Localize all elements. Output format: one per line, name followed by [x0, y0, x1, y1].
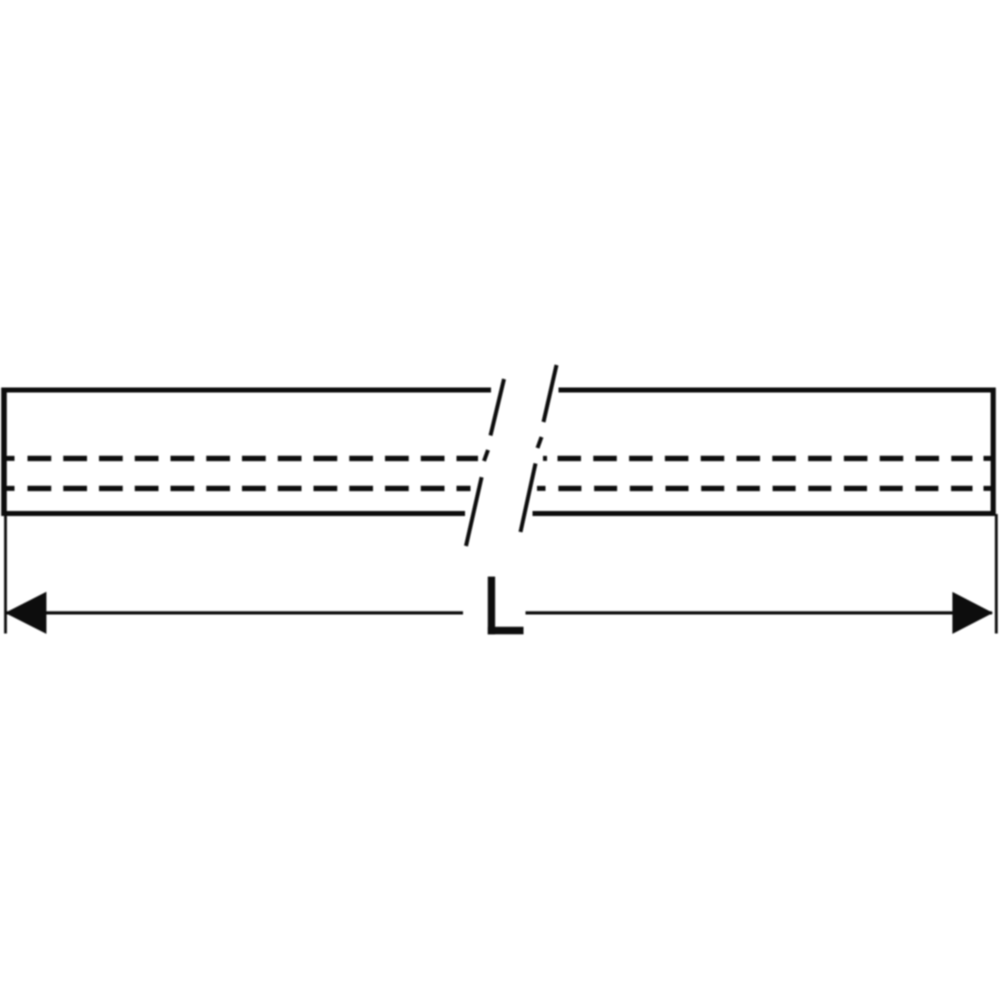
rod bottom edge right segment — [533, 511, 996, 516]
break line right, middle tick — [538, 437, 542, 448]
thread dashed line row1 right stub — [984, 456, 992, 461]
thread dashed line row1 middle dot — [543, 456, 547, 461]
rod top edge right segment — [559, 388, 996, 393]
dimension line left part — [6, 611, 463, 614]
break line left, upper segment — [491, 379, 505, 436]
rod right end edge — [991, 388, 996, 516]
thread dashed line row2 right dashes — [558, 486, 972, 491]
label L (vertical stem) — [488, 577, 495, 635]
rod bottom edge left segment — [2, 511, 466, 516]
break line left, middle tick — [484, 450, 488, 461]
dimension line right part — [526, 611, 993, 614]
label L (horizontal bar) — [488, 627, 524, 635]
break line right, upper segment — [544, 365, 557, 422]
break line left, lower segment — [466, 477, 482, 546]
thread dashed line row2 left stub — [2, 486, 15, 491]
thread dashed line row1 right dashes — [558, 456, 973, 461]
rod left end edge — [1, 388, 7, 516]
thread dashed line row2 middle short dash — [537, 486, 546, 491]
thread dashed line row2 right stub — [984, 486, 992, 491]
break line right, lower segment — [521, 463, 536, 532]
dimension extension line right — [995, 514, 998, 634]
dimension arrowhead right — [952, 592, 993, 634]
thread dashed line row2 left dashes — [28, 486, 471, 491]
dimension extension line left — [4, 514, 7, 634]
thread dashed line row1 left dashes — [28, 456, 479, 461]
thread dashed line row1 left stub — [2, 456, 15, 461]
rod top edge left segment — [2, 388, 492, 393]
dimension arrowhead left — [5, 592, 46, 634]
